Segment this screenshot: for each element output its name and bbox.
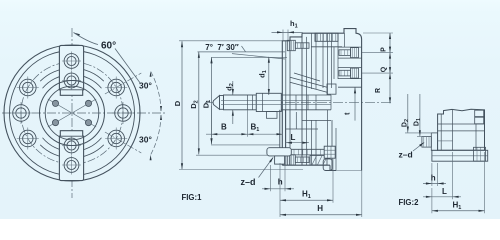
dimension H1 line (280, 199, 333, 201)
B1 right arrow (277, 133, 283, 135)
jaw guideway arc r45 top (40, 68, 104, 81)
fig2 H1 extension left (431, 188, 433, 213)
left view vertical centerline (71, 28, 73, 198)
fig2 dimension D1 line (419, 94, 421, 136)
top jaw cross-section block (315, 33, 338, 41)
H1 extension right (332, 159, 334, 203)
H1 left arrow (280, 199, 286, 201)
d1 top arrow (268, 57, 270, 63)
fig2 internal vertical 1 (440, 114, 442, 150)
mounting hole at 30 deg (105, 77, 127, 99)
d1 bottom arrow (268, 89, 270, 95)
z-d leader line (259, 158, 274, 178)
jaw guideway arc r45 bottom (40, 145, 104, 158)
center boss circle (40, 81, 105, 146)
diagonal line (+30 deg) (48, 99, 96, 127)
h1 extension a (282, 30, 284, 41)
body bottom edge right (330, 170, 336, 172)
svg-text:Q: Q (380, 66, 387, 72)
PQR arrow slot1 down (389, 53, 391, 59)
dimension line D (181, 41, 183, 169)
dimension D1 top extension (211, 56, 287, 58)
fig2 internal vertical 3 (475, 124, 477, 150)
rod block inner vertical (262, 93, 264, 111)
body step line 2 (302, 120, 331, 122)
key block under rod (267, 112, 278, 119)
rod internal tick (246, 95, 248, 110)
fig2 L arrow left (426, 196, 432, 198)
chuck body inner rim circle (10, 51, 135, 176)
dimension d1 line (268, 57, 270, 95)
body internal line (311, 33, 313, 89)
h left arrow (265, 188, 271, 190)
mounting hole at -30 deg (105, 128, 127, 150)
chuck body section outline (282, 29, 361, 171)
angle slant line (232, 54, 285, 59)
fig2 rail internal line (432, 155, 488, 157)
dimension D bottom extension (179, 169, 303, 171)
fig2 z-d screw head (422, 137, 431, 148)
fig2 L extension right (452, 152, 454, 199)
PQR arrow slot2 down (389, 73, 391, 79)
lower 30-degree radial centerline (105, 132, 141, 153)
upper radial slot screw (338, 47, 362, 58)
body internal line (327, 110, 329, 155)
t ledge line (338, 86, 362, 88)
rod step tick (251, 95, 253, 110)
diagonal line (-30 deg) (48, 99, 96, 127)
center bore circle (45, 86, 99, 140)
body internal vertical x332 (331, 120, 333, 171)
upper 30-degree radial centerline (105, 73, 141, 94)
h1 left arrow (277, 31, 283, 33)
svg-text:FIG:2: FIG:2 (399, 198, 420, 207)
svg-text:30°: 30° (139, 81, 152, 91)
fig2 body outline (438, 109, 485, 150)
lower 30-degree dimension arc (151, 115, 161, 155)
rod internal tick (330, 95, 332, 110)
fig2 z-d leader arrow (419, 142, 424, 147)
dimension D bottom arrow (181, 163, 183, 169)
dimension D1 bottom extension (211, 144, 280, 146)
d2 upper arrow (232, 89, 234, 95)
fig2 D2 extension (405, 132, 432, 134)
dimension D top extension (179, 40, 283, 42)
fig2 h arrow right (438, 182, 444, 184)
dimension D2 bottom arrow (198, 148, 200, 154)
rod inner shaft bottom line (221, 104, 331, 106)
t top arrow (354, 87, 356, 93)
body internal line (331, 33, 333, 88)
svg-text:P: P (380, 47, 387, 52)
h1 right arrow (288, 31, 294, 33)
rod inner shaft top line (221, 99, 331, 101)
fig2 internal vertical 2 (452, 110, 454, 151)
lower radial slot screw (338, 68, 362, 79)
dimension line D2 (198, 52, 200, 154)
body internal line (333, 47, 335, 79)
body internal line (327, 33, 329, 95)
z-d boss (267, 148, 291, 156)
dimension D2 bottom extension (196, 154, 267, 156)
rod line into body bottom (281, 109, 331, 111)
60-degree leader line to radial (115, 49, 141, 84)
B/B1 middle arrow left (241, 133, 247, 135)
dimension d2 line upper (232, 81, 234, 95)
bottom jaw upper screw (62, 136, 81, 155)
L right arrow (303, 142, 309, 144)
H extension right (361, 171, 363, 218)
dimension P/Q/R line (389, 33, 391, 103)
actuating screw rod (213, 93, 281, 111)
svg-text:60°: 60° (101, 41, 116, 52)
fig2 H1 arrow right (479, 210, 485, 212)
bolt circle (dash-dot) (21, 62, 123, 164)
rod internal tick (295, 95, 297, 110)
H/H1 extension left (279, 163, 281, 217)
PQR extension top (363, 32, 393, 34)
mounting hole at 150 deg (17, 77, 39, 99)
dimension D1 top arrow (210, 57, 212, 63)
h right arrow (285, 188, 291, 190)
60-degree leader curve (74, 33, 99, 45)
fig2 D1 arrow (419, 130, 421, 136)
body internal line (315, 33, 317, 89)
B/B1 middle arrow right (247, 133, 253, 135)
z-d stud (275, 156, 285, 164)
body internal line (301, 37, 303, 165)
flange inner edge line (285, 41, 287, 165)
svg-text:R: R (375, 88, 382, 93)
fig2 dimension H1 line (432, 210, 485, 212)
PQR extension slot1 (362, 52, 393, 54)
jaw guide vertical right (344, 33, 346, 47)
H1 right arrow (327, 199, 333, 201)
fig2 h arrow left (426, 182, 432, 184)
L left arrow (286, 142, 292, 144)
wedge nut block (327, 84, 336, 94)
svg-text:z–d: z–d (399, 149, 413, 159)
fig2 dimension h line (423, 183, 446, 185)
body step line (286, 128, 318, 130)
fig2 rail screw (474, 147, 486, 161)
dimension B/B1 line (206, 133, 283, 135)
cap screw lower-left (287, 155, 309, 165)
fig2 H1 extension right (484, 152, 486, 213)
wedge slant line 3 (294, 73, 320, 81)
drive pin dot (85, 120, 91, 126)
lower arc arrowhead at radial (150, 155, 152, 161)
body internal line (337, 33, 339, 79)
h extension right (284, 165, 286, 191)
svg-text:z–d: z–d (241, 177, 256, 187)
svg-text:7° 7′ 30″: 7° 7′ 30″ (205, 43, 239, 52)
body internal line (311, 120, 313, 165)
rod internal tick (307, 95, 309, 110)
bottom block cross-section (310, 156, 328, 166)
60-degree leader arrowhead (74, 33, 80, 37)
dimension t line (354, 87, 356, 120)
svg-text:h: h (431, 173, 436, 182)
svg-text:D: D (173, 100, 182, 106)
body step vertical (295, 112, 297, 129)
H left arrow (280, 214, 286, 216)
rod line into body top (281, 94, 331, 96)
fig2 internal horizontal 2 (438, 130, 485, 132)
B left arrow (211, 133, 217, 135)
fig2 dimension D2 line (407, 94, 409, 133)
fig2 H1 arrow left (432, 210, 438, 212)
B extension middle (246, 110, 248, 137)
dimension D2 top arrow (198, 52, 200, 58)
fig2 L arrow right (453, 196, 459, 198)
svg-text:30°: 30° (139, 135, 152, 145)
dimension d2 line lower (232, 110, 234, 124)
body internal line (289, 41, 291, 165)
body internal line (322, 33, 324, 88)
fig2 dimension L line (423, 196, 461, 198)
dimension H line (280, 214, 362, 216)
fig2 h extension left (431, 163, 433, 186)
fig2 D1 extension (417, 136, 426, 138)
rod internal tick (315, 95, 317, 110)
fig2 top-right screw block 2 (475, 117, 484, 124)
svg-text:H: H (317, 204, 323, 213)
bracket plate under bolt (323, 159, 332, 171)
PQR extension slot2 (362, 72, 393, 74)
dimension L line (286, 142, 310, 144)
PQR arrow slot1 up (389, 47, 391, 53)
bottom jaw lower screw (62, 156, 81, 175)
fig2 top-right screw block 1 (475, 110, 484, 116)
dimension h line (262, 188, 294, 190)
PQR arrow axis (389, 97, 391, 103)
wedge slant line 1 (290, 77, 327, 87)
drive pin dot (85, 100, 91, 106)
jaw guide bar left line (279, 110, 281, 148)
fig2 z-d leader (413, 143, 424, 152)
svg-text:L: L (442, 187, 447, 196)
dimension D1 bottom arrow (210, 138, 212, 144)
h extension left (270, 165, 272, 191)
drive pin dot (52, 120, 58, 126)
upper 30-degree dimension arc (151, 71, 161, 111)
top jaw lower screw (62, 71, 81, 90)
body internal vertical x336 (335, 128, 337, 171)
fig2 left boss (431, 133, 437, 150)
mounting bolt horizontal (291, 146, 335, 158)
bottom jaw (59, 131, 83, 181)
body bottom edge (282, 164, 330, 166)
dimension h1 line (272, 31, 303, 33)
top jaw upper screw (62, 52, 81, 71)
B extension left (210, 106, 212, 137)
fig2 internal horizontal 1 (438, 123, 485, 125)
chuck body outer circle (4, 45, 140, 181)
h1 extension b (287, 30, 289, 41)
body bottom edge thin (336, 170, 362, 172)
cap screw upper-left (287, 40, 309, 50)
fig2 D2 arrow (407, 127, 409, 133)
fig2 h extension right (437, 163, 439, 186)
mounting hole at 210 deg (17, 128, 39, 150)
drive pin dot (52, 100, 58, 106)
PQR arrow slot2 up (389, 67, 391, 73)
jaw guide horizontal (311, 46, 342, 48)
jaw guideway arc r38 bottom (43, 138, 102, 152)
mounting hole at 180 deg (10, 102, 32, 124)
body bottom step (329, 165, 331, 170)
wedge slant line 2 (290, 82, 327, 92)
angle leader tick (242, 46, 246, 52)
jaw guideway arc r38 top (43, 75, 102, 89)
body internal line (315, 120, 317, 165)
H right arrow (356, 214, 362, 216)
jaw guide bar right line (285, 110, 287, 148)
upper arc arrowhead at centerline (160, 106, 162, 112)
fig2 screw axis line (438, 140, 453, 142)
left view horizontal centerline (2, 112, 167, 114)
top jaw (59, 45, 83, 95)
lower arc arrowhead at centerline (160, 115, 162, 121)
z-d leader arrow (269, 157, 273, 163)
section axis centerline (205, 102, 393, 104)
upper arc arrowhead at radial (150, 71, 152, 77)
svg-text:B: B (221, 123, 227, 132)
fig2 base rail (432, 150, 488, 161)
body internal line (306, 37, 308, 165)
svg-text:L: L (291, 133, 296, 142)
dimension D top arrow (181, 41, 183, 47)
mounting hole at 0 deg (112, 102, 134, 124)
PQR arrow top (389, 33, 391, 39)
dimension line D1 (211, 57, 213, 144)
svg-text:FIG:1: FIG:1 (182, 193, 203, 202)
angle reference line (198, 51, 286, 53)
d2 lower arrow (232, 110, 234, 116)
